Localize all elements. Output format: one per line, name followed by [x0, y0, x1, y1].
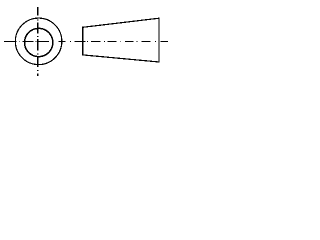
side view cone outline (trapezoid, small end left, large end right) — [83, 18, 159, 62]
front view inner circle (small end of cone) — [25, 28, 53, 56]
horizontal centerline (dash-dot) shared axis across both views — [4, 40, 168, 42]
front view outer circle (large end of cone) — [15, 18, 62, 65]
background — [0, 0, 175, 80]
vertical centerline (dash-dot) of front view — [37, 7, 39, 76]
